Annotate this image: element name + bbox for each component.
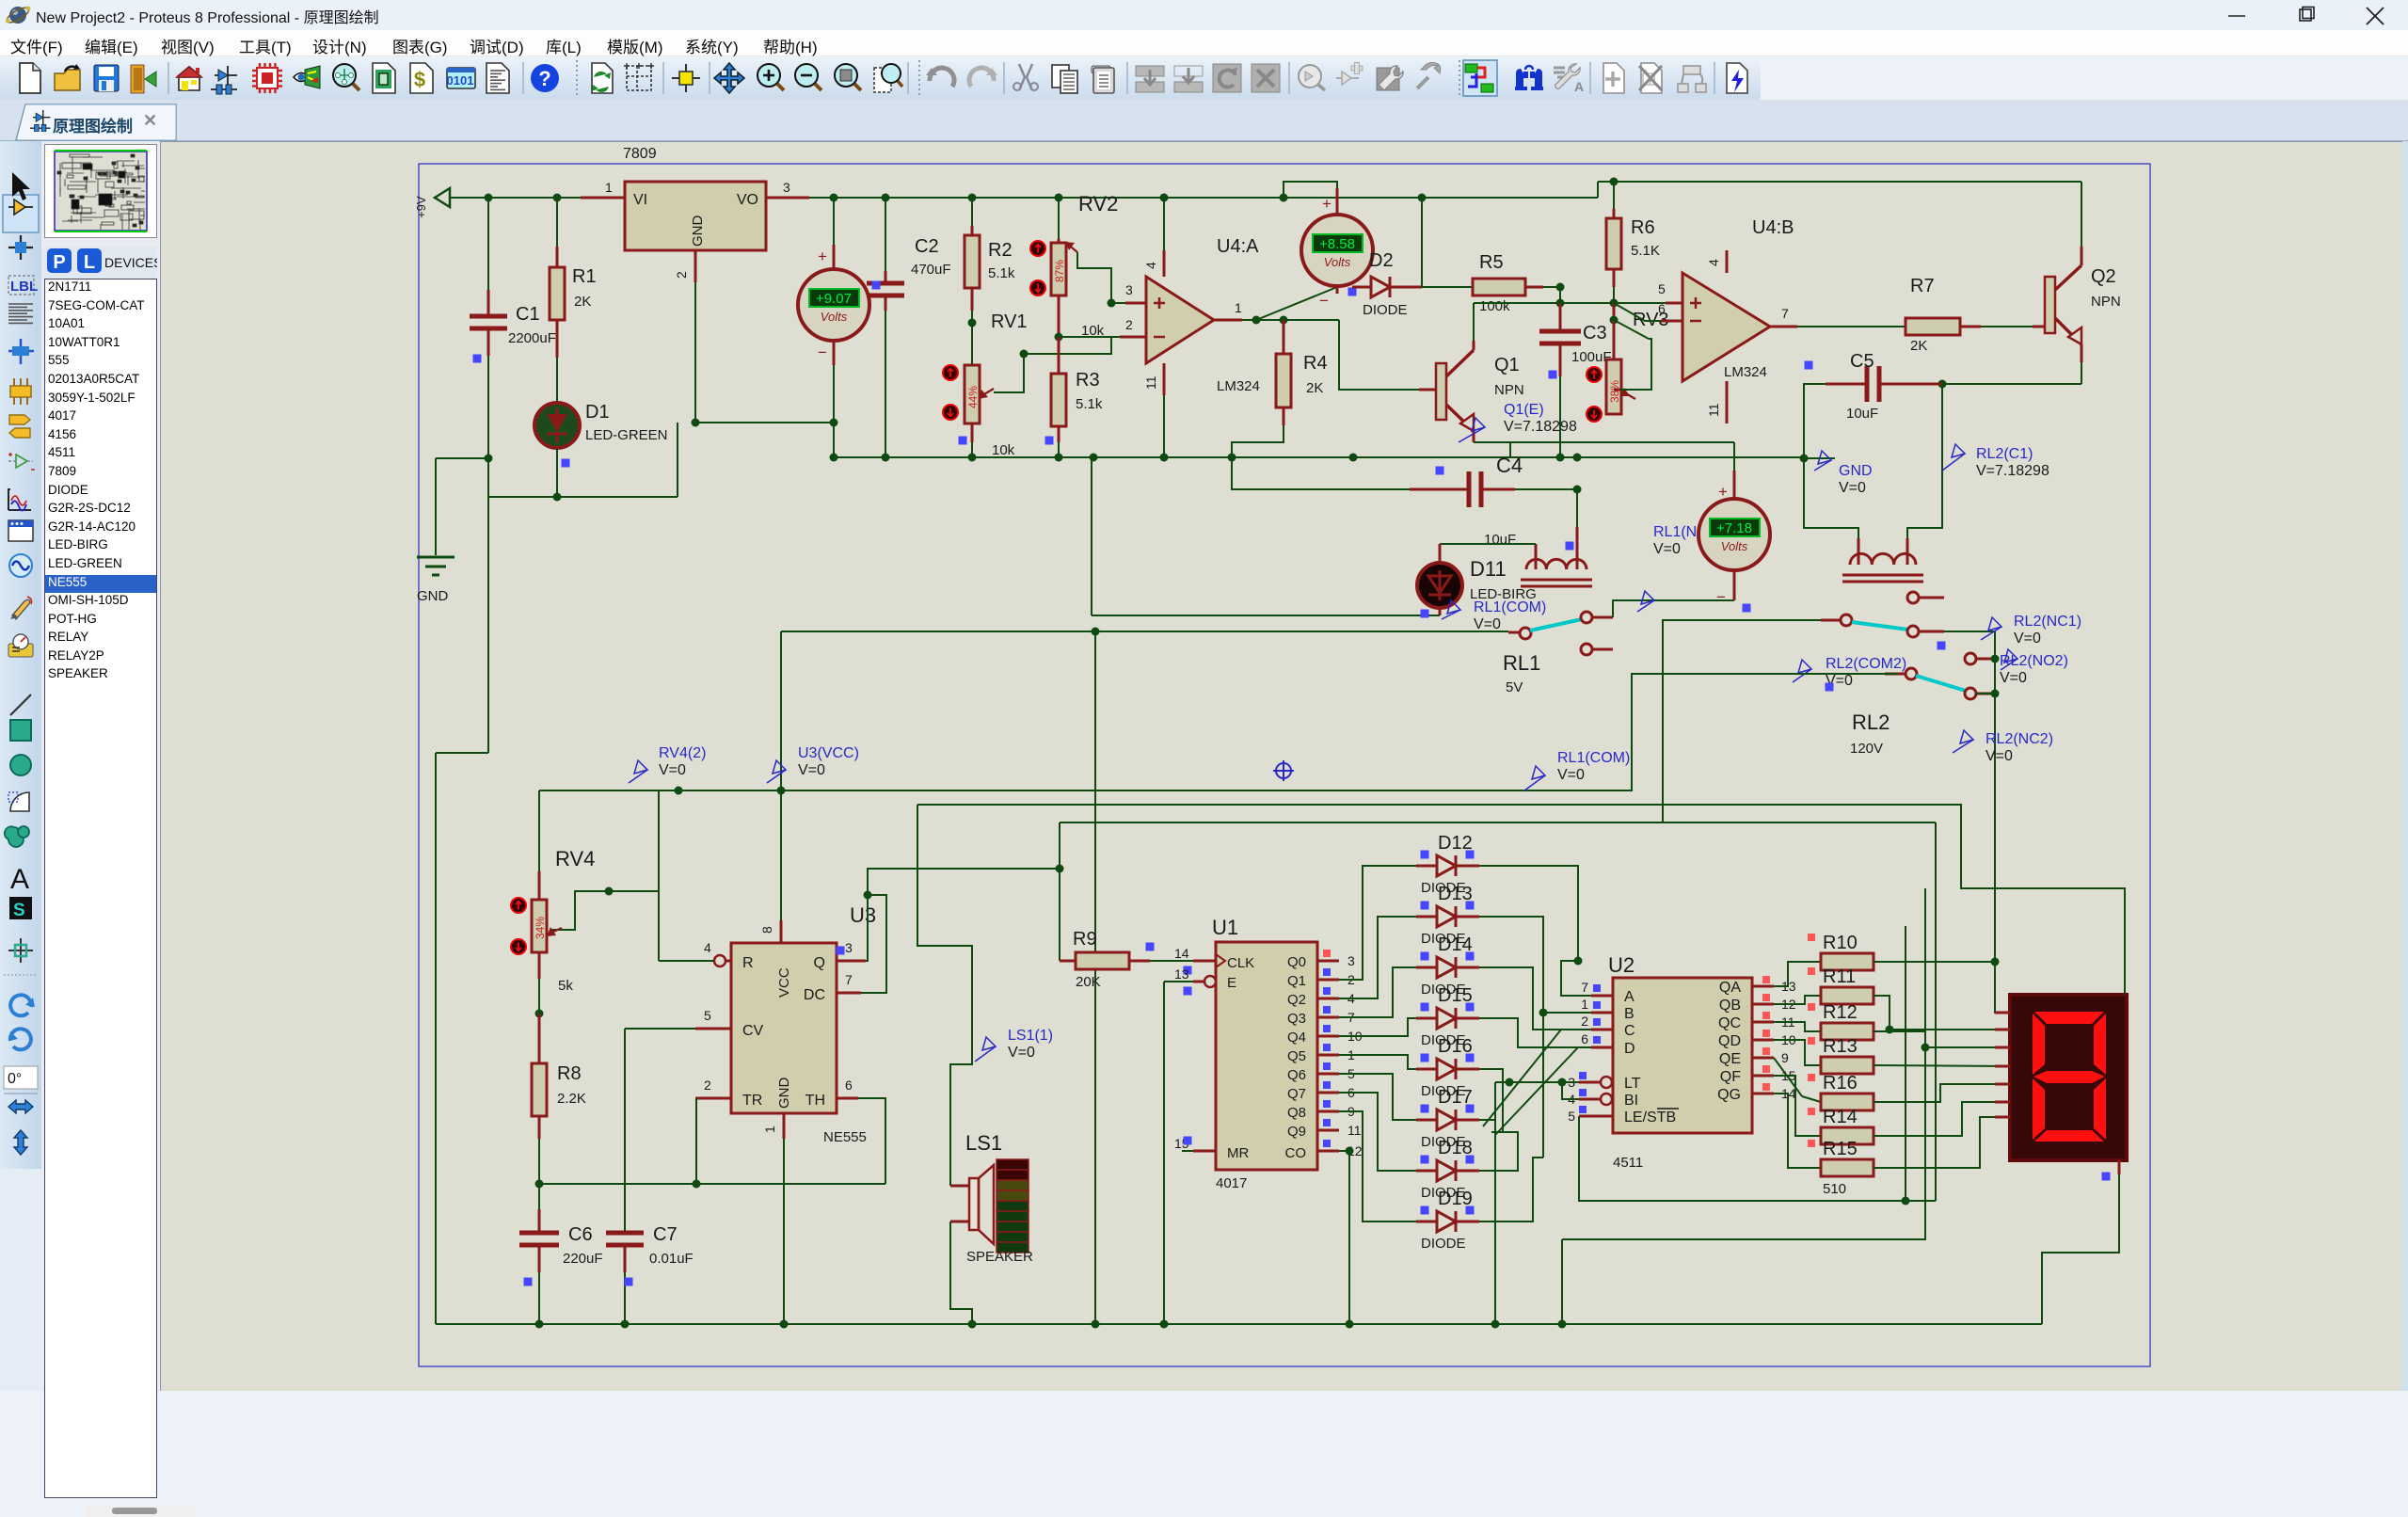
- probe Q1(E): [1459, 418, 1485, 442]
- wire RV3 wiper to pin6: [1614, 320, 1649, 339]
- svg-text:L: L: [84, 252, 95, 273]
- wire LT BI tie: [1495, 1081, 1579, 1083]
- svg-text:QG: QG: [1717, 1087, 1741, 1103]
- svg-text:D1: D1: [585, 402, 610, 423]
- svg-text:RL1(COM): RL1(COM): [1557, 750, 1630, 766]
- diode D13: [1416, 916, 1437, 918]
- relay RL2 NO2 contact: [1965, 653, 1976, 664]
- svg-text:Q2: Q2: [2091, 266, 2116, 287]
- svg-text:3: 3: [845, 940, 853, 955]
- wire NC1: [1944, 631, 1995, 962]
- svg-text:R11: R11: [1823, 966, 1856, 987]
- svg-text:4511: 4511: [1613, 1155, 1643, 1171]
- svg-text:V=0: V=0: [1008, 1045, 1035, 1061]
- resistor R7: [1906, 318, 1960, 335]
- svg-text:10uF: 10uF: [1846, 406, 1878, 422]
- svg-text:1: 1: [762, 1126, 777, 1133]
- junction dots top rail: [485, 194, 493, 202]
- svg-text:NPN: NPN: [1494, 382, 1524, 398]
- diode D18: [1416, 1170, 1437, 1173]
- resistor R8: [538, 979, 540, 1014]
- pin2 wire: [1120, 336, 1146, 339]
- svg-text:DEVICES: DEVICES: [104, 255, 157, 270]
- svg-text:−: −: [818, 343, 827, 361]
- svg-text:R14: R14: [1823, 1107, 1858, 1127]
- wire feeder mid: [1094, 631, 1096, 1324]
- svg-text:2: 2: [1581, 1014, 1588, 1029]
- pin12 CO: [1317, 1150, 1339, 1153]
- svg-text:34%: 34%: [534, 917, 547, 939]
- svg-text:Q: Q: [814, 955, 825, 971]
- resistor R6: [1613, 182, 1615, 209]
- svg-text:P: P: [53, 252, 65, 273]
- wire feeder from gnd rail: [1091, 457, 1092, 615]
- resistor R10: [1821, 953, 1874, 970]
- svg-text:GND: GND: [1839, 463, 1873, 479]
- svg-text:+8.58: +8.58: [1319, 236, 1355, 252]
- svg-text:V=0: V=0: [798, 762, 825, 778]
- svg-text:Q9: Q9: [1287, 1124, 1306, 1140]
- svg-text:RL1: RL1: [1503, 651, 1540, 675]
- voltmeter V3 +7.18: [1733, 442, 1735, 471]
- svg-text:R12: R12: [1823, 1002, 1858, 1023]
- resistor R14: [1821, 1127, 1874, 1144]
- svg-text:2K: 2K: [1910, 338, 1927, 354]
- capacitor C3: [1559, 287, 1561, 303]
- wire rl1com feeder: [780, 631, 782, 790]
- probe GND: [1804, 457, 1835, 459]
- wire NC2 right: [1976, 693, 1995, 695]
- probe RL2(NO2): [2001, 649, 2017, 670]
- svg-text:U3: U3: [850, 903, 876, 927]
- svg-text:GND: GND: [776, 1078, 792, 1110]
- pin11 wire: [1163, 363, 1166, 395]
- svg-text:+9V: +9V: [414, 196, 428, 218]
- wire C5 right down: [1907, 384, 1942, 538]
- pin11 stub U4B: [1726, 381, 1729, 423]
- resistor R5: [1422, 286, 1473, 288]
- svg-text:S: S: [13, 901, 25, 920]
- rail 854: [917, 804, 1961, 806]
- svg-text:QC: QC: [1718, 1015, 1741, 1031]
- gnd rail right: [1577, 456, 1804, 458]
- bottom rail: [436, 1323, 2042, 1325]
- resistor R12: [1821, 1023, 1874, 1040]
- pin4 stub U4B: [1726, 250, 1729, 273]
- gnd rail 3: [1059, 456, 1363, 458]
- resistor R13: [1821, 1057, 1874, 1074]
- svg-text:4: 4: [704, 940, 711, 955]
- diode D19: [1416, 1221, 1437, 1223]
- wire Q2 emitter: [2081, 344, 2083, 362]
- svg-text:RL2(C1): RL2(C1): [1976, 446, 2033, 462]
- svg-text:R15: R15: [1823, 1139, 1858, 1159]
- svg-text:1: 1: [1581, 997, 1588, 1012]
- svg-text:V=0: V=0: [2014, 631, 2041, 647]
- wire RV1 wiper: [994, 337, 1111, 392]
- capacitor C4: [1232, 457, 1410, 489]
- wire left rail down: [487, 458, 489, 753]
- capacitor C6: [538, 1184, 540, 1209]
- wire rail rl2com2: [781, 674, 1898, 790]
- svg-text:+9.07: +9.07: [816, 291, 852, 307]
- pin1 GND wire: [783, 1113, 786, 1139]
- svg-text:DIODE: DIODE: [1363, 302, 1408, 318]
- svg-text:R2: R2: [988, 240, 1013, 261]
- svg-text:Q4: Q4: [1287, 1030, 1306, 1046]
- capacitor C2: [885, 198, 886, 271]
- svg-text:6: 6: [1581, 1031, 1588, 1046]
- svg-text:2K: 2K: [1306, 380, 1323, 396]
- svg-text:GND: GND: [690, 216, 706, 248]
- svg-text:5.1k: 5.1k: [988, 265, 1015, 281]
- resistor R1: [556, 198, 558, 247]
- wire emitter rail to C4 zone: [1363, 456, 1577, 458]
- svg-text:87%: 87%: [1053, 260, 1066, 282]
- svg-text:6: 6: [1658, 301, 1666, 316]
- svg-text:RL2(NO2): RL2(NO2): [2000, 653, 2068, 669]
- pin4 R wire: [659, 960, 713, 962]
- speaker LS1: [950, 1185, 969, 1188]
- svg-text:510: 510: [1823, 1181, 1846, 1197]
- svg-text:LE/STB: LE/STB: [1624, 1110, 1676, 1126]
- svg-text:RV1: RV1: [991, 311, 1028, 332]
- wire R riser: [658, 790, 660, 961]
- svg-text:V=0: V=0: [1557, 767, 1585, 783]
- svg-text:2200uF: 2200uF: [508, 330, 556, 346]
- pot RV2: [1058, 198, 1060, 239]
- svg-text:U1: U1: [1212, 916, 1238, 939]
- svg-text:11: 11: [1348, 1123, 1362, 1138]
- op-amp U4:B: [1682, 273, 1770, 381]
- svg-text:Volts: Volts: [1721, 539, 1748, 553]
- svg-text:NE555: NE555: [823, 1129, 867, 1145]
- svg-text:LBL: LBL: [10, 279, 38, 295]
- probe RL2(NC1): [1981, 617, 2001, 640]
- svg-text:V=0: V=0: [659, 762, 686, 778]
- svg-text:RV2: RV2: [1078, 192, 1118, 216]
- svg-text:+: +: [1322, 195, 1332, 213]
- svg-text:2: 2: [1125, 317, 1133, 332]
- wire D2 to rail: [1421, 198, 1423, 287]
- svg-text:RV4(2): RV4(2): [659, 745, 706, 761]
- pin 3 wire: [766, 197, 809, 200]
- svg-text:+: +: [818, 248, 827, 265]
- wire cross diag 1: [1483, 1030, 1561, 1126]
- svg-text:RL2(NC1): RL2(NC1): [2014, 614, 2081, 630]
- wires resistors to display: [1874, 962, 2010, 1013]
- svg-text:C6: C6: [568, 1224, 593, 1245]
- wire D1 to gnd rail: [556, 448, 558, 497]
- pin15 MR: [1193, 1150, 1216, 1153]
- svg-text:C1: C1: [516, 304, 540, 325]
- svg-text:MR: MR: [1227, 1145, 1249, 1161]
- svg-text:R13: R13: [1823, 1036, 1858, 1057]
- svg-text:C7: C7: [653, 1224, 678, 1245]
- svg-text:CV: CV: [742, 1023, 764, 1039]
- svg-text:Q8: Q8: [1287, 1105, 1306, 1121]
- pot RV4: [538, 790, 540, 871]
- wire Q1 emitter: [1473, 431, 1475, 442]
- probe RL1(NO): [1637, 591, 1654, 612]
- probe RL2(COM2): [1793, 660, 1811, 682]
- svg-text:7: 7: [845, 972, 853, 987]
- wire R6 to pin5: [1613, 287, 1615, 303]
- resistor R4: [1283, 320, 1285, 354]
- wire spk feeder: [917, 805, 972, 1186]
- rail mid 874: [1060, 822, 1936, 823]
- svg-text:44%: 44%: [966, 386, 980, 408]
- svg-text:QE: QE: [1719, 1051, 1741, 1067]
- svg-text:CLK: CLK: [1227, 955, 1254, 971]
- svg-text:QD: QD: [1718, 1033, 1741, 1049]
- pin1 wire: [1214, 319, 1242, 322]
- gnd rail 2: [834, 456, 1059, 458]
- wire +9V top rail: [450, 197, 1598, 199]
- svg-text:10k: 10k: [992, 442, 1015, 458]
- sheet border: [419, 164, 2150, 1366]
- svg-text:5k: 5k: [558, 978, 573, 994]
- svg-text:5: 5: [1658, 281, 1666, 296]
- svg-text:LS1(1): LS1(1): [1008, 1028, 1053, 1044]
- relay RL2 coil: [1850, 553, 1916, 565]
- svg-text:2.2K: 2.2K: [557, 1091, 586, 1107]
- rail 1317: [1562, 888, 1925, 1239]
- capacitor C5: [1920, 383, 1942, 386]
- svg-text:C: C: [1624, 1023, 1635, 1039]
- svg-text:LED-GREEN: LED-GREEN: [585, 427, 668, 443]
- pin2 TR wire: [695, 1097, 731, 1100]
- probe RL1(COM) lower: [1524, 766, 1545, 790]
- resistor R3: [1058, 337, 1060, 374]
- probe U3(VCC): [767, 760, 786, 783]
- wire RV4 wiper: [550, 891, 659, 930]
- svg-text:V=0: V=0: [2000, 670, 2027, 686]
- U2 input stubs: [1591, 995, 1613, 998]
- svg-text:NPN: NPN: [2091, 294, 2121, 310]
- probe RL1(COM) upper: [1442, 600, 1460, 619]
- svg-text:2: 2: [674, 271, 689, 279]
- svg-text:7: 7: [1581, 980, 1588, 995]
- wire display bottom pin: [2118, 1160, 2121, 1174]
- op-amp U4:A: [1146, 277, 1214, 363]
- pin7 wire: [1770, 326, 1797, 328]
- svg-text:BI: BI: [1624, 1093, 1638, 1109]
- svg-text:RL2(COM2): RL2(COM2): [1826, 656, 1906, 672]
- rail rv4 top: [539, 790, 781, 791]
- svg-text:QB: QB: [1719, 998, 1741, 1014]
- relay RL2 contacts upper: [1907, 592, 1919, 603]
- svg-text:Q6: Q6: [1287, 1067, 1306, 1083]
- svg-text:0.01uF: 0.01uF: [649, 1251, 694, 1267]
- svg-text:100k: 100k: [1479, 298, 1510, 314]
- pin13 E: [1204, 976, 1216, 987]
- svg-text:C4: C4: [1496, 454, 1523, 477]
- svg-text:Volts: Volts: [821, 310, 848, 324]
- wire spk bottom: [950, 1222, 972, 1324]
- U2 LT BI LE stubs: [1601, 1077, 1612, 1088]
- pin14 CLK: [1193, 960, 1216, 963]
- relay RL1 coil: [1576, 489, 1578, 527]
- svg-text:B: B: [1624, 1006, 1635, 1022]
- svg-text:+7.18: +7.18: [1716, 520, 1752, 536]
- svg-text:RV4: RV4: [555, 847, 595, 870]
- pin5 CV wire: [695, 1028, 731, 1030]
- ic U3 NE555: [731, 943, 837, 1113]
- svg-text:DIODE: DIODE: [1421, 1236, 1466, 1252]
- wire display top right feed: [1961, 804, 2125, 995]
- svg-text:11: 11: [1706, 403, 1721, 417]
- svg-text:4017: 4017: [1216, 1175, 1247, 1191]
- display left pin stubs: [1995, 1012, 2010, 1014]
- rail 1276: [1579, 1200, 1936, 1202]
- wire U2 B input: [1543, 1012, 1591, 1014]
- svg-text:GND: GND: [417, 588, 449, 604]
- capacitor C1: [487, 198, 489, 290]
- transistor Q2: [2045, 277, 2055, 333]
- svg-text:SPEAKER: SPEAKER: [966, 1249, 1033, 1265]
- origin marker middle: [1273, 760, 1294, 781]
- svg-text:220uF: 220uF: [563, 1251, 603, 1267]
- svg-text:470uF: 470uF: [911, 262, 951, 278]
- svg-text:7: 7: [1781, 306, 1789, 321]
- relay RL2 switch1: [1663, 620, 1821, 822]
- svg-text:C5: C5: [1850, 351, 1874, 372]
- svg-text:2: 2: [704, 1078, 711, 1093]
- svg-text:20K: 20K: [1076, 974, 1101, 990]
- svg-text:U2: U2: [1608, 953, 1635, 977]
- svg-text:−: −: [1716, 588, 1726, 606]
- svg-text:R3: R3: [1076, 370, 1100, 391]
- svg-text:1: 1: [1235, 300, 1242, 315]
- svg-text:Q5: Q5: [1287, 1048, 1306, 1064]
- wire LT feeder down: [1494, 1082, 1496, 1324]
- wire pin5: [1560, 302, 1682, 304]
- diode D15: [1416, 1017, 1437, 1020]
- ic U1 4017: [1216, 942, 1317, 1170]
- svg-text:Q3: Q3: [1287, 1011, 1306, 1027]
- wires QA-QG to resistors: [1774, 962, 1821, 986]
- svg-text:RL1(COM): RL1(COM): [1474, 599, 1546, 615]
- svg-text:VI: VI: [633, 192, 647, 208]
- svg-text:LS1: LS1: [965, 1131, 1002, 1155]
- svg-text:2K: 2K: [574, 294, 591, 310]
- wires Q to diodes: [1339, 866, 1416, 980]
- display 7SEG: [2010, 995, 2127, 1160]
- wire 2025 vertical: [1905, 926, 1906, 1201]
- terminal +9V: [435, 188, 450, 207]
- wire RV2 wiper: [1077, 252, 1111, 303]
- diode D14: [1416, 966, 1437, 969]
- wire U2 A input: [1561, 961, 1591, 996]
- wire D11 bottom: [1439, 608, 1442, 615]
- svg-text:8: 8: [759, 926, 774, 934]
- pot RV1: [965, 365, 980, 423]
- diode D16: [1416, 1068, 1437, 1071]
- svg-text:Q0: Q0: [1287, 954, 1306, 970]
- svg-text:R1: R1: [572, 266, 597, 287]
- svg-text:TR: TR: [742, 1093, 762, 1109]
- svg-text:R: R: [742, 955, 754, 971]
- svg-text:VO: VO: [737, 192, 758, 208]
- svg-text:10uF: 10uF: [1484, 532, 1516, 548]
- led D1 LED-GREEN: [556, 358, 558, 405]
- svg-text:CO: CO: [1285, 1145, 1307, 1161]
- probe LS1(1): [975, 1037, 996, 1062]
- svg-text:R10: R10: [1823, 933, 1858, 953]
- svg-text:0°: 0°: [8, 1071, 22, 1087]
- pin3 wire: [1125, 302, 1146, 305]
- svg-text:4: 4: [1706, 259, 1721, 266]
- regulator U? 7809 body: [625, 182, 766, 250]
- pin8 VCC wire: [780, 790, 782, 920]
- svg-text:Volts: Volts: [1324, 255, 1351, 269]
- pin 2 wire: [694, 250, 697, 282]
- svg-text:U3(VCC): U3(VCC): [798, 745, 859, 761]
- diode D2: [1352, 286, 1371, 289]
- wire NO to voltmeter minus: [1613, 600, 1734, 617]
- resistor R15: [1821, 1159, 1874, 1176]
- diode D12: [1416, 865, 1437, 868]
- svg-text:4: 4: [1143, 262, 1158, 269]
- resistor R9: [1060, 960, 1076, 963]
- svg-text:5.1k: 5.1k: [1076, 396, 1103, 412]
- svg-text:14: 14: [1174, 946, 1189, 961]
- resistor R16: [1821, 1094, 1874, 1110]
- pin4 wire: [1163, 250, 1166, 277]
- svg-text:120V: 120V: [1850, 741, 1883, 757]
- svg-text:5: 5: [704, 1008, 711, 1023]
- led D11 LED-BIRG: [1440, 543, 1536, 545]
- svg-text:Q1: Q1: [1287, 973, 1306, 989]
- svg-text:Q2: Q2: [1287, 992, 1306, 1008]
- pin3 Q wire: [837, 960, 866, 963]
- relay RL2 switch2: [1906, 668, 1917, 679]
- svg-text:13: 13: [1174, 966, 1189, 982]
- svg-text:D11: D11: [1470, 557, 1507, 581]
- wire Q2 collector: [2081, 247, 2083, 265]
- svg-text:5V: 5V: [1506, 679, 1523, 695]
- svg-text:LM324: LM324: [1724, 364, 1767, 380]
- svg-text:TH: TH: [805, 1093, 825, 1109]
- svg-text:11: 11: [1143, 375, 1158, 390]
- svg-text:U4:A: U4:A: [1217, 236, 1259, 257]
- svg-text:RL2(NC2): RL2(NC2): [1985, 731, 2053, 747]
- wires diode outputs: [1479, 866, 1578, 961]
- svg-text:3: 3: [1125, 282, 1133, 297]
- probe RL2(C1): [1942, 444, 1965, 471]
- wire Q1 collector: [1473, 341, 1475, 350]
- ground rail left: [436, 457, 488, 459]
- wire R8 bottom rail: [539, 1183, 885, 1185]
- svg-text:+: +: [1718, 483, 1728, 501]
- svg-text:VCC: VCC: [776, 967, 792, 998]
- pin 1 wire: [581, 197, 625, 200]
- svg-text:V=7.18298: V=7.18298: [1504, 419, 1577, 435]
- ic U2 4511: [1613, 978, 1752, 1133]
- U2 output stubs: [1752, 985, 1774, 988]
- transistor Q1: [1436, 363, 1446, 420]
- svg-text:A: A: [10, 864, 29, 895]
- svg-text:C3: C3: [1583, 323, 1607, 343]
- svg-text:V=0: V=0: [1653, 541, 1681, 557]
- svg-text:C2: C2: [915, 236, 939, 257]
- wire diagonal to voltmeter: [1256, 287, 1337, 320]
- svg-text:U4:B: U4:B: [1752, 217, 1794, 238]
- svg-text:V=0: V=0: [1839, 480, 1866, 496]
- resistor R11: [1821, 987, 1874, 1004]
- svg-text:A: A: [1624, 989, 1635, 1005]
